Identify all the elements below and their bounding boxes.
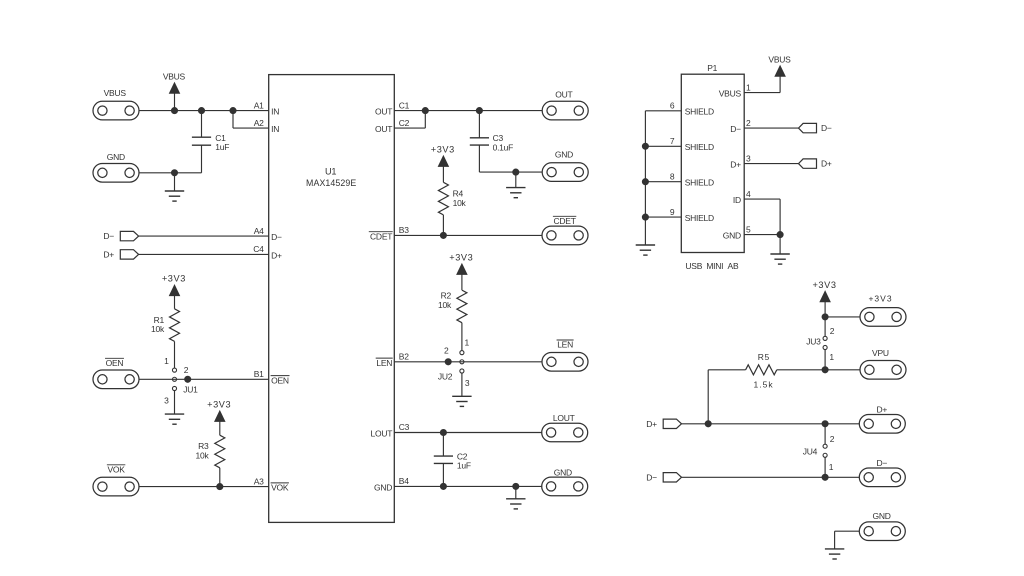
svg-text:VBUS: VBUS bbox=[104, 88, 127, 98]
junction C3 tap bbox=[476, 108, 482, 114]
wire shield pin 9 bbox=[645, 216, 681, 218]
junction shield 8 bbox=[642, 179, 648, 185]
svg-text:C2: C2 bbox=[399, 118, 410, 128]
svg-text:D−: D− bbox=[646, 472, 657, 482]
wire CDET pin B3 to CDET pad bbox=[394, 234, 542, 236]
svg-text:D+: D+ bbox=[730, 159, 741, 169]
svg-text:SHIELD: SHIELD bbox=[685, 213, 714, 223]
resistor R2 bbox=[457, 290, 467, 323]
wire down to C2 cap bbox=[442, 433, 444, 457]
junction ground tap B4 bbox=[513, 483, 519, 489]
wire OUT pin C2 bbox=[394, 127, 425, 129]
junction R4/CDET bbox=[440, 232, 446, 238]
wire JU4 pin 1 down to D- line bbox=[824, 457, 826, 477]
svg-text:D−: D− bbox=[821, 123, 832, 133]
wire GND pad stub bbox=[835, 530, 860, 532]
signal flag D+ at P1 bbox=[799, 159, 817, 168]
svg-text:A3: A3 bbox=[254, 476, 264, 486]
junction VBUS/C1 bbox=[198, 108, 204, 114]
svg-text:LEN: LEN bbox=[557, 340, 573, 350]
svg-text:JU1: JU1 bbox=[183, 384, 198, 394]
svg-text:10k: 10k bbox=[196, 451, 210, 461]
svg-text:3: 3 bbox=[164, 395, 169, 405]
ground below bottom GND pad bbox=[825, 549, 844, 559]
U1 right pin name overlines bbox=[369, 232, 393, 358]
connector pad GND (bottom) bbox=[859, 522, 905, 541]
connector pad GND bbox=[93, 164, 139, 183]
junction GND/ground bbox=[171, 170, 177, 176]
junction C2 joins C1 bbox=[422, 108, 428, 114]
wire down to ground bbox=[834, 531, 836, 549]
junction JU3/VPU bbox=[822, 367, 828, 373]
svg-text:JU2: JU2 bbox=[438, 371, 453, 381]
wire VOK pad to pin A3 bbox=[139, 486, 269, 488]
junction VBUS/arrow bbox=[171, 108, 177, 114]
signal flag D+ (bottom) bbox=[663, 419, 681, 428]
svg-text:9: 9 bbox=[670, 207, 675, 217]
connector pad GND (right top) bbox=[542, 163, 588, 182]
svg-text:CDET: CDET bbox=[554, 216, 576, 226]
wire shield pin 6 bbox=[645, 110, 681, 112]
wire down to JU3 pin 2 bbox=[824, 317, 826, 336]
svg-text:D+: D+ bbox=[646, 419, 657, 429]
signal flag D- (to USB) bbox=[120, 231, 138, 240]
wire JU3 pin 1 down to VPU line bbox=[824, 350, 826, 370]
connector pad OUT bbox=[542, 101, 588, 120]
wire R4 to CDET line bbox=[442, 215, 444, 236]
capacitor C3 bbox=[470, 138, 489, 145]
junction shield 7 bbox=[642, 143, 648, 149]
label JU3 pin numbers and name bbox=[806, 326, 835, 362]
svg-text:1: 1 bbox=[164, 356, 169, 366]
svg-text:P1: P1 bbox=[707, 63, 717, 73]
P1 left pin numbers 6-9 bbox=[670, 101, 675, 217]
junction VBUS/A2 branch bbox=[230, 108, 236, 114]
U1 left pin labels A1 A2 A4 C4 B1 A3 bbox=[253, 100, 289, 492]
P1 right pin numbers 1-5 bbox=[746, 82, 751, 234]
resistor R5 bbox=[746, 365, 777, 375]
svg-text:1uF: 1uF bbox=[457, 461, 471, 471]
jumper JU4 pins bbox=[823, 444, 827, 457]
junction C2 cap tap bbox=[440, 429, 446, 435]
junction JU1 pin 2 bbox=[185, 376, 191, 382]
wire P1 VBUS pin 1 bbox=[744, 92, 780, 94]
power flag +3V3 for R1 bbox=[162, 274, 186, 309]
wire to R5 left bbox=[708, 369, 745, 371]
svg-text:U1: U1 bbox=[325, 166, 336, 176]
wire LEN pin B2 to LEN pad bbox=[394, 361, 542, 363]
svg-text:+3V3: +3V3 bbox=[449, 253, 473, 263]
junction shield 9 bbox=[642, 214, 648, 220]
connector P1 USB MINI AB box bbox=[681, 74, 744, 252]
ground below C3 GND wire bbox=[506, 172, 525, 198]
power flag +3V3 at JU3 bbox=[812, 280, 836, 317]
svg-text:2: 2 bbox=[746, 118, 751, 128]
junction C2/GND line bbox=[440, 483, 446, 489]
svg-text:2: 2 bbox=[184, 365, 189, 375]
svg-text:1: 1 bbox=[829, 462, 834, 472]
svg-text:VBUS: VBUS bbox=[768, 54, 791, 64]
wire D+ to D+ pad bbox=[682, 423, 860, 425]
ground below P1 GND pin bbox=[770, 235, 789, 265]
junction ID/GND bbox=[777, 232, 783, 238]
wire P1 D+ pin 3 bbox=[744, 163, 798, 165]
svg-text:LOUT: LOUT bbox=[553, 413, 575, 423]
svg-text:MAX14529E: MAX14529E bbox=[306, 178, 356, 188]
connector pad LEN bbox=[542, 353, 588, 372]
svg-text:10k: 10k bbox=[438, 300, 452, 310]
ground below GND pin B4 wire bbox=[506, 486, 525, 509]
power flag +3V3 for R4 bbox=[431, 145, 455, 183]
connector pad CDET bbox=[542, 226, 588, 245]
svg-text:+3V3: +3V3 bbox=[207, 400, 231, 410]
wire to C1 top bbox=[201, 111, 203, 138]
svg-text:5: 5 bbox=[746, 224, 751, 234]
capacitor C1 bbox=[192, 137, 211, 145]
connector pad VOK bbox=[93, 477, 139, 496]
svg-text:3: 3 bbox=[465, 378, 470, 388]
ground below GND pad wire bbox=[165, 173, 184, 201]
svg-text:GND: GND bbox=[873, 511, 891, 521]
svg-text:1: 1 bbox=[465, 337, 470, 347]
wire shield bus vertical bbox=[644, 111, 646, 245]
svg-text:6: 6 bbox=[670, 101, 675, 111]
svg-text:10k: 10k bbox=[151, 324, 165, 334]
svg-text:D+: D+ bbox=[271, 250, 282, 260]
svg-text:OEN: OEN bbox=[271, 375, 289, 385]
svg-text:7: 7 bbox=[670, 136, 675, 146]
svg-text:IN: IN bbox=[271, 107, 279, 117]
svg-text:D−: D− bbox=[103, 231, 114, 241]
svg-text:10k: 10k bbox=[453, 198, 467, 208]
label JU1 pin numbers and name bbox=[164, 356, 198, 405]
svg-text:A1: A1 bbox=[254, 100, 264, 110]
svg-text:4: 4 bbox=[746, 189, 751, 199]
P1 left pin names SHIELD x4 bbox=[685, 107, 714, 223]
svg-text:OUT: OUT bbox=[555, 89, 572, 99]
svg-text:VOK: VOK bbox=[271, 483, 289, 493]
junction JU4/D- bbox=[822, 474, 828, 480]
capacitor C2 bbox=[434, 456, 453, 463]
wire to +3V3 pad bbox=[825, 316, 860, 318]
junction GND/ground right bbox=[513, 169, 519, 175]
svg-text:1uF: 1uF bbox=[215, 142, 229, 152]
resistor R4 bbox=[438, 182, 448, 215]
junction JU4/D+ bbox=[822, 421, 828, 427]
svg-text:SHIELD: SHIELD bbox=[685, 107, 714, 117]
wire C3 bottom bbox=[478, 145, 480, 172]
svg-text:GND: GND bbox=[723, 230, 741, 240]
wire VBUS pad to IN pin A1 bbox=[139, 110, 269, 112]
connector pad LOUT bbox=[542, 423, 588, 442]
svg-text:R5: R5 bbox=[758, 352, 770, 362]
resistor R1 bbox=[170, 309, 180, 342]
svg-text:OEN: OEN bbox=[106, 358, 124, 368]
svg-text:2: 2 bbox=[830, 434, 835, 444]
svg-text:B4: B4 bbox=[399, 476, 409, 486]
P1 right pin names VBUS D- D+ ID GND bbox=[719, 88, 742, 240]
wire GND pad to C1 bbox=[139, 172, 201, 174]
wire P1 ID pin 4 bbox=[744, 198, 780, 200]
svg-text:LOUT: LOUT bbox=[371, 429, 393, 439]
svg-text:D+: D+ bbox=[103, 250, 114, 260]
svg-text:C3: C3 bbox=[399, 422, 410, 432]
wire A2 branch to IN pin A2 bbox=[233, 127, 269, 129]
svg-text:A2: A2 bbox=[254, 118, 264, 128]
wire A2 branch vertical bbox=[232, 111, 234, 129]
power flag +3V3 for R2 bbox=[449, 253, 473, 291]
svg-text:GND: GND bbox=[107, 152, 125, 162]
connector pad +3V3 bbox=[860, 308, 906, 327]
junction R3/VOK bbox=[217, 484, 223, 490]
svg-text:VBUS: VBUS bbox=[719, 88, 742, 98]
svg-text:VPU: VPU bbox=[872, 348, 889, 358]
U1 left pin name overlines bbox=[271, 376, 290, 483]
svg-text:USB MINI AB: USB MINI AB bbox=[685, 261, 739, 271]
svg-text:3: 3 bbox=[746, 153, 751, 163]
connector pad D- bbox=[859, 468, 905, 487]
svg-text:+3V3: +3V3 bbox=[812, 280, 836, 290]
svg-text:GND: GND bbox=[374, 482, 392, 492]
wire D- to D- pad bbox=[682, 476, 860, 478]
connector pad D+ bbox=[859, 415, 905, 434]
svg-text:8: 8 bbox=[670, 171, 675, 181]
svg-text:A4: A4 bbox=[254, 226, 264, 236]
ground below JU2 pin 3 bbox=[452, 373, 471, 406]
wire P1 GND pin 5 bbox=[744, 234, 780, 236]
wire GND pin B4 to GND pad bbox=[394, 485, 542, 487]
ground below shield bus bbox=[636, 245, 655, 255]
svg-text:+3V3: +3V3 bbox=[162, 274, 186, 284]
svg-text:1.5k: 1.5k bbox=[754, 379, 774, 389]
resistor R3 bbox=[215, 435, 225, 468]
svg-text:0.1uF: 0.1uF bbox=[493, 142, 514, 152]
wire LOUT pin C3 to LOUT pad bbox=[394, 432, 542, 434]
connector pad VBUS bbox=[93, 101, 139, 120]
svg-text:SHIELD: SHIELD bbox=[685, 142, 714, 152]
svg-text:OUT: OUT bbox=[375, 124, 392, 134]
svg-text:C4: C4 bbox=[253, 244, 264, 254]
wire down to C3 bbox=[478, 111, 480, 138]
svg-text:IN: IN bbox=[271, 124, 279, 134]
svg-text:+3V3: +3V3 bbox=[868, 293, 892, 303]
svg-text:B2: B2 bbox=[399, 352, 409, 362]
svg-text:1: 1 bbox=[746, 82, 751, 92]
svg-text:CDET: CDET bbox=[370, 231, 392, 241]
label JU2 pin numbers and name bbox=[438, 337, 470, 388]
wire OEN pad to pin B1 bbox=[139, 378, 269, 380]
svg-text:VBUS: VBUS bbox=[163, 71, 186, 81]
power flag VBUS bbox=[163, 71, 186, 110]
svg-text:C1: C1 bbox=[399, 100, 410, 110]
signal flag D- (bottom) bbox=[663, 473, 681, 482]
svg-text:2: 2 bbox=[830, 326, 835, 336]
svg-text:D−: D− bbox=[876, 458, 887, 468]
svg-text:+3V3: +3V3 bbox=[431, 145, 455, 155]
wire R5 to VPU pad bbox=[777, 369, 860, 371]
junction +3V3 pad tap bbox=[822, 314, 828, 320]
wire up to VBUS flag bbox=[779, 76, 781, 93]
wire R5 branch down to D+ bbox=[707, 370, 709, 424]
power flag VBUS at P1 bbox=[768, 54, 791, 76]
wire C3 to GND pad bbox=[479, 171, 542, 173]
connector pad VPU bbox=[860, 361, 906, 380]
wire R1 to JU1 pin 1 bbox=[174, 341, 176, 368]
label JU4 pin numbers and name bbox=[803, 434, 835, 472]
svg-text:D−: D− bbox=[271, 232, 282, 242]
wire down to JU4 pin 2 bbox=[824, 424, 826, 444]
wire C2 cap to GND line bbox=[442, 463, 444, 486]
connector pad GND (right bottom) bbox=[542, 477, 588, 496]
svg-text:GND: GND bbox=[554, 468, 572, 478]
connector pad OEN bbox=[93, 370, 139, 389]
wire C1 bottom bbox=[201, 145, 203, 173]
wire C2 up to C1 bbox=[424, 111, 426, 129]
svg-text:ID: ID bbox=[733, 195, 741, 205]
svg-text:D+: D+ bbox=[876, 405, 887, 415]
junction JU2 pin 2 bbox=[445, 359, 451, 365]
wire ID down to GND bbox=[779, 199, 781, 235]
wire P1 D- pin 2 bbox=[744, 127, 798, 129]
wire D- to pin A4 bbox=[139, 235, 269, 237]
svg-text:B1: B1 bbox=[254, 369, 264, 379]
signal flag D+ (to USB) bbox=[120, 250, 138, 259]
svg-text:B3: B3 bbox=[399, 225, 409, 235]
jumper JU3 pins bbox=[823, 336, 827, 349]
svg-text:D+: D+ bbox=[821, 159, 832, 169]
power flag +3V3 for R3 bbox=[207, 400, 231, 436]
svg-text:1: 1 bbox=[829, 352, 834, 362]
wire R2 to JU2 pin 1 bbox=[461, 323, 463, 351]
op-amp U1 MAX14529E box bbox=[269, 75, 395, 523]
svg-text:JU3: JU3 bbox=[806, 336, 821, 346]
junction R5/D+ bbox=[705, 421, 711, 427]
ground below JU1 pin 3 bbox=[165, 391, 184, 425]
jumper JU1 pins bbox=[172, 368, 176, 391]
wire D+ to pin C4 bbox=[139, 253, 269, 255]
signal flag D- at P1 bbox=[799, 123, 817, 132]
svg-text:GND: GND bbox=[555, 150, 573, 160]
svg-text:LEN: LEN bbox=[376, 358, 392, 368]
svg-text:2: 2 bbox=[444, 345, 449, 355]
wire shield pin 7 bbox=[645, 145, 681, 147]
wire OUT pin C1 to OUT pad bbox=[394, 110, 542, 112]
label U1 MAX14529E bbox=[306, 166, 356, 187]
svg-text:OUT: OUT bbox=[375, 107, 392, 117]
wire shield pin 8 bbox=[645, 181, 681, 183]
svg-text:JU4: JU4 bbox=[803, 447, 818, 457]
jumper JU2 pins bbox=[460, 351, 464, 374]
U1 right pin labels C1 C2 B3 B2 C3 B4 bbox=[370, 100, 410, 492]
label R5 1.5k bbox=[754, 352, 774, 389]
svg-text:VOK: VOK bbox=[107, 464, 125, 474]
svg-text:D−: D− bbox=[730, 124, 741, 134]
wire R3 to VOK line bbox=[219, 468, 221, 487]
svg-text:SHIELD: SHIELD bbox=[685, 178, 714, 188]
